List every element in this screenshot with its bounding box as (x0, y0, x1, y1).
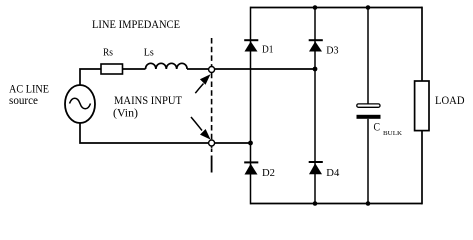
wire load branch bottom (421, 131, 423, 205)
junction bottom rail D4 (313, 201, 318, 206)
ac source V1 (65, 85, 95, 123)
load resistor (415, 81, 429, 131)
wire source top (80, 69, 101, 85)
svg-text:D3: D3 (326, 45, 339, 57)
diode D1 (244, 39, 258, 41)
inductor Ls (146, 63, 188, 69)
node bottom (Vin probe) (209, 140, 215, 146)
diode D3 (309, 39, 323, 41)
wire source bottom (80, 123, 250, 143)
resistor Rs (101, 64, 123, 74)
arrow to top node (195, 84, 203, 94)
svg-text:(Vin): (Vin) (113, 106, 138, 120)
svg-text:D4: D4 (326, 167, 339, 179)
arrow to bottom node (191, 117, 202, 131)
junction bottom rail cap (366, 201, 371, 206)
svg-text:LOAD: LOAD (435, 93, 465, 107)
bottom rail (251, 203, 423, 205)
wire Ls to bridge (top AC wire) (187, 68, 315, 70)
svg-text:Rs: Rs (103, 47, 113, 59)
wire capacitor branch bottom (367, 119, 369, 204)
diode D4 (309, 161, 323, 163)
svg-text:source: source (9, 93, 38, 107)
capacitor C_BULK bottom plate (357, 115, 381, 119)
wire D1-D2 branch (250, 7, 252, 205)
junction AC bottom to D1-D2 (248, 141, 253, 146)
dashed measurement line (211, 38, 213, 150)
svg-text:D1: D1 (262, 44, 274, 56)
diode D2 (244, 161, 258, 163)
wire load branch top (421, 7, 423, 81)
svg-text:Ls: Ls (144, 47, 154, 59)
junction top rail cap (366, 5, 371, 10)
wire capacitor branch top (367, 8, 369, 105)
svg-text:LINE IMPEDANCE: LINE IMPEDANCE (92, 17, 180, 31)
junction AC top to D3-D4 (313, 67, 318, 72)
wire D3-D4 branch (314, 8, 316, 204)
node top (Vin probe) (209, 67, 215, 73)
capacitor C_BULK top plate (357, 104, 380, 107)
wire Rs to Ls (123, 68, 146, 70)
svg-text:C: C (374, 120, 381, 134)
junction top rail D3 (313, 5, 318, 10)
top rail (251, 7, 423, 9)
svg-text:BULK: BULK (383, 130, 402, 137)
svg-text:D2: D2 (262, 167, 275, 179)
